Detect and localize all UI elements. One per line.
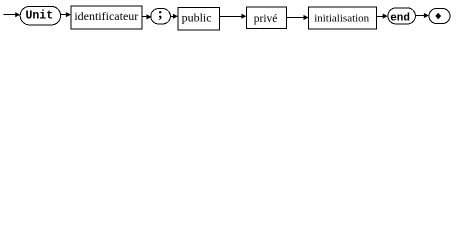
svg-text:identificateur: identificateur [74, 9, 138, 23]
svg-text:public: public [182, 11, 212, 25]
svg-text:;: ; [158, 6, 163, 22]
svg-text:end: end [390, 12, 410, 24]
svg-text:Unit: Unit [25, 10, 53, 23]
svg-text:privé: privé [254, 13, 278, 25]
svg-text:initialisation: initialisation [314, 13, 369, 25]
